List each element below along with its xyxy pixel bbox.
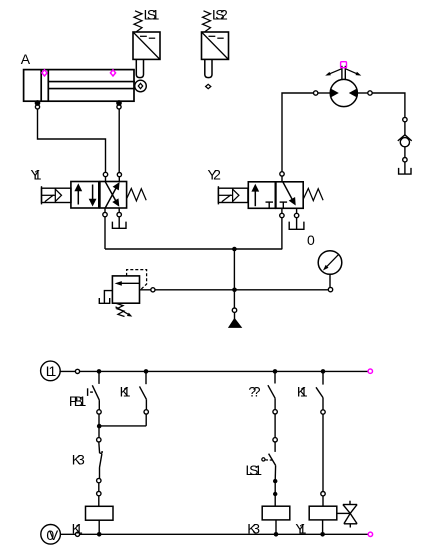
svg-text:??: ?? <box>248 383 260 399</box>
svg-text:L1: L1 <box>46 363 57 379</box>
svg-text:0V: 0V <box>46 527 58 543</box>
svg-text:Y1: Y1 <box>295 520 306 536</box>
svg-text:K3: K3 <box>247 520 260 536</box>
svg-text:LS2: LS2 <box>212 7 228 23</box>
svg-text:A: A <box>21 51 31 67</box>
svg-text:LS1: LS1 <box>246 462 263 478</box>
svg-text:LS1: LS1 <box>144 7 160 23</box>
svg-text:K1: K1 <box>297 383 308 399</box>
svg-text:Y1: Y1 <box>31 167 42 183</box>
svg-text:Y2: Y2 <box>208 167 222 183</box>
svg-text:PB1: PB1 <box>69 393 87 409</box>
svg-text:0: 0 <box>307 232 315 248</box>
svg-text:K1: K1 <box>72 520 83 536</box>
svg-text:K1: K1 <box>120 384 131 400</box>
svg-text:K3: K3 <box>72 452 85 468</box>
